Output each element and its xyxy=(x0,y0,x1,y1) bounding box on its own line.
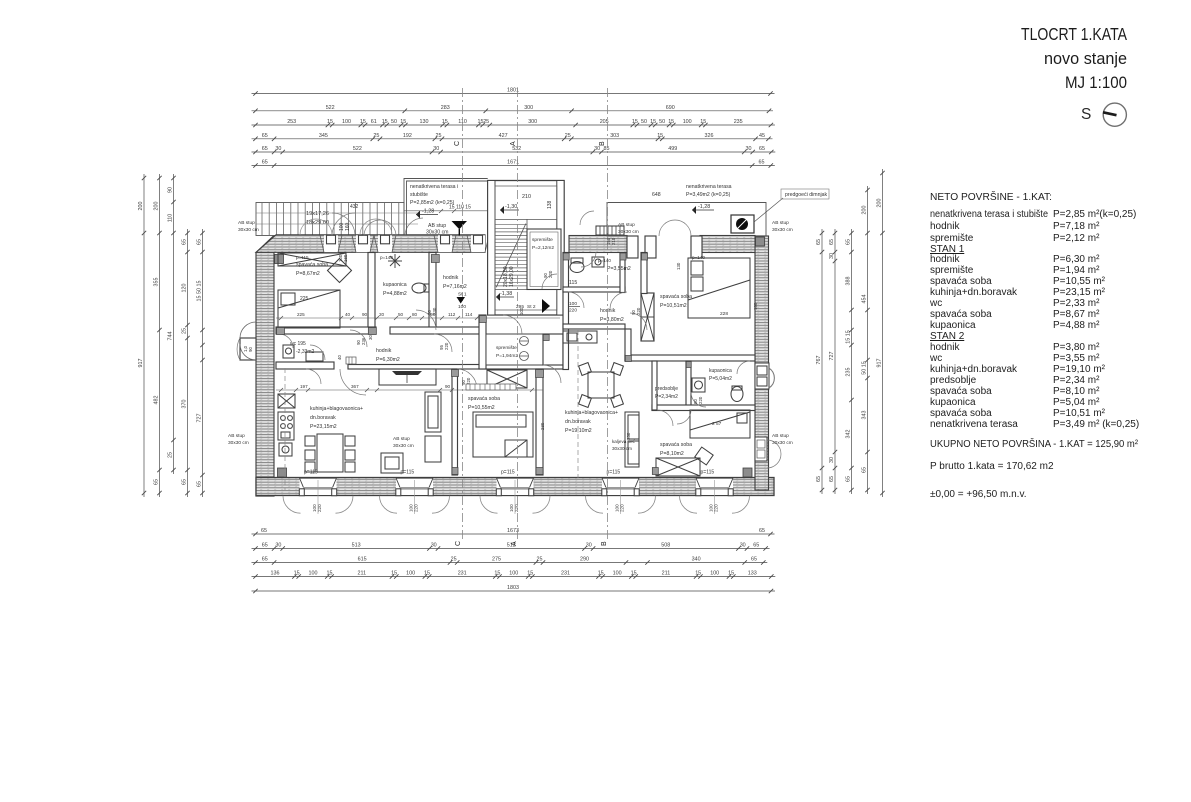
section line A xyxy=(517,88,519,540)
axis dashed vertical stan2 xyxy=(577,330,579,478)
pillar Q1 xyxy=(627,236,638,258)
svg-text:648: 648 xyxy=(652,192,661,198)
post stan2 bed wall xyxy=(642,253,648,260)
svg-text:A: A xyxy=(510,141,517,146)
svg-text:90: 90 xyxy=(248,347,253,352)
svg-text:P=5,04 m²: P=5,04 m² xyxy=(1053,397,1100,408)
svg-text:P=2,12m2: P=2,12m2 xyxy=(532,245,554,251)
svg-text:P=23,15m2: P=23,15m2 xyxy=(310,424,337,430)
AB stup label left-top xyxy=(238,220,259,233)
axis dashed vertical kitchen xyxy=(284,368,286,490)
svg-text:15: 15 xyxy=(424,571,430,577)
svg-text:340: 340 xyxy=(692,557,701,563)
slab post P4 xyxy=(434,235,456,252)
svg-text:65: 65 xyxy=(197,481,203,487)
svg-text:522: 522 xyxy=(353,146,362,152)
svg-text:225: 225 xyxy=(297,312,305,317)
svg-text:P=2,12 m²: P=2,12 m² xyxy=(1053,233,1100,244)
svg-text:wc: wc xyxy=(929,353,942,364)
section line B xyxy=(607,88,609,540)
svg-text:UKUPNO NETO POVRŠINA - 1.KAT =: UKUPNO NETO POVRŠINA - 1.KAT = 125,90 m² xyxy=(930,437,1139,450)
svg-text:P=6,30 m²: P=6,30 m² xyxy=(1053,254,1100,265)
svg-text:kuhinja+dn.boravak: kuhinja+dn.boravak xyxy=(930,287,1018,298)
wardrobe X stan2 bedroom2 xyxy=(656,458,700,476)
svg-text:343: 343 xyxy=(862,411,868,420)
svg-text:220: 220 xyxy=(514,504,519,512)
svg-text:25: 25 xyxy=(168,452,174,458)
stan2 dining table xyxy=(579,363,624,408)
svg-text:80: 80 xyxy=(412,312,418,317)
svg-text:100: 100 xyxy=(342,119,351,125)
shower star bath1 xyxy=(388,254,402,268)
svg-text:230: 230 xyxy=(432,307,437,315)
svg-text:65: 65 xyxy=(759,528,765,534)
svg-text:65: 65 xyxy=(262,133,268,139)
svg-text:220: 220 xyxy=(698,396,703,404)
svg-text:P=5,04m2: P=5,04m2 xyxy=(709,376,732,382)
svg-text:200: 200 xyxy=(138,202,144,211)
svg-text:P=3,55 m²: P=3,55 m² xyxy=(1053,353,1100,364)
svg-text:P=19,10m2: P=19,10m2 xyxy=(565,428,592,434)
dim bottom row5 xyxy=(252,585,776,593)
svg-text:AB stup: AB stup xyxy=(238,220,255,226)
stan2 shaft with X xyxy=(641,293,654,341)
svg-text:220: 220 xyxy=(548,270,553,278)
svg-text:kupaonica: kupaonica xyxy=(709,368,732,374)
svg-text:100: 100 xyxy=(509,571,518,577)
svg-text:kaljeva peć: kaljeva peć xyxy=(612,439,636,444)
svg-text:P=3,49m2 (k=0,25): P=3,49m2 (k=0,25) xyxy=(686,192,731,198)
dim top row2 xyxy=(252,105,774,113)
stan2 entry walls xyxy=(543,253,569,370)
svg-text:P=10,55m2: P=10,55m2 xyxy=(468,405,495,411)
svg-text:112: 112 xyxy=(448,312,456,317)
post predsoblje xyxy=(686,362,691,368)
dim top total 1801 xyxy=(252,88,775,96)
svg-text:225: 225 xyxy=(300,296,309,302)
top wall inner dim labels xyxy=(296,255,705,263)
svg-text:65: 65 xyxy=(753,543,759,549)
dim right col1 xyxy=(816,229,824,494)
svg-text:275: 275 xyxy=(492,557,501,563)
wc room stan1 xyxy=(290,341,315,355)
svg-text:367: 367 xyxy=(351,384,359,389)
svg-text:25: 25 xyxy=(537,557,543,563)
svg-text:AB stup: AB stup xyxy=(618,222,635,228)
svg-text:nenatkrivena terasa i: nenatkrivena terasa i xyxy=(410,184,458,190)
slab post P1 xyxy=(320,235,342,252)
svg-text:160: 160 xyxy=(343,254,348,262)
AB stup label mid-top xyxy=(618,222,639,235)
exterior wall bottom xyxy=(256,478,774,496)
kitchen counter left xyxy=(278,394,295,440)
internal dim chain kitchen xyxy=(276,384,543,390)
svg-text:136: 136 xyxy=(271,571,280,577)
bed stan2 first xyxy=(688,258,750,318)
svg-text:hodnik: hodnik xyxy=(930,254,960,265)
door mark St1 xyxy=(458,292,467,311)
svg-text:STAN 2: STAN 2 xyxy=(930,331,965,342)
svg-text:65: 65 xyxy=(262,557,268,563)
svg-text:303: 303 xyxy=(610,133,619,139)
svg-text:P=3,49 m² (k=0,25): P=3,49 m² (k=0,25) xyxy=(1053,419,1139,430)
stan2 sofa xyxy=(625,412,639,467)
svg-text:15: 15 xyxy=(494,571,500,577)
AB stup label right-top xyxy=(772,220,793,233)
svg-text:spavaća soba: spavaća soba xyxy=(468,396,500,402)
wardrobe X room1 xyxy=(278,253,346,266)
predgoreci dimnjak label xyxy=(754,189,829,222)
stair strip arcs xyxy=(300,219,392,235)
svg-text:novo stanje: novo stanje xyxy=(1044,49,1127,68)
bathroom kupaonica 4.88 xyxy=(383,282,407,297)
tv wall unit top xyxy=(379,369,436,385)
svg-text:231: 231 xyxy=(458,571,467,577)
wardrobe X bedroom2 xyxy=(487,370,527,388)
svg-text:65: 65 xyxy=(816,476,822,482)
AB stup label right-bottom xyxy=(772,433,793,446)
vent circles spremiste xyxy=(520,337,529,361)
svg-text:S: S xyxy=(1081,106,1091,123)
svg-text:P=2,34 m²: P=2,34 m² xyxy=(1053,375,1100,386)
svg-text:30: 30 xyxy=(368,335,373,340)
dim right col4 xyxy=(862,186,870,494)
dim left col4 xyxy=(182,229,190,497)
svg-text:690: 690 xyxy=(666,105,675,111)
interior wall bedroom/stan2 vertical xyxy=(536,369,543,475)
post bottom bed1 xyxy=(536,468,543,475)
svg-text:65: 65 xyxy=(829,239,835,245)
svg-text:235: 235 xyxy=(734,119,743,125)
svg-text:spavaća soba: spavaća soba xyxy=(930,309,992,320)
slab post P5 xyxy=(467,235,489,252)
svg-text:15: 15 xyxy=(391,571,397,577)
svg-text:kupaonica: kupaonica xyxy=(383,282,407,288)
svg-text:wc: wc xyxy=(929,298,942,309)
svg-text:65: 65 xyxy=(751,557,757,563)
svg-text:kuhinja+dn.boravak: kuhinja+dn.boravak xyxy=(930,364,1018,375)
bed stan1 second xyxy=(473,412,533,457)
svg-text:AB stup: AB stup xyxy=(393,436,410,442)
svg-text:100: 100 xyxy=(519,307,524,315)
kitchen label stan1 xyxy=(310,406,363,430)
dim left col1 xyxy=(138,174,146,497)
svg-text:40: 40 xyxy=(345,312,351,317)
svg-text:25: 25 xyxy=(436,133,442,139)
internal dim ticks row kitchen xyxy=(279,388,534,392)
hodnik 7.16 label xyxy=(443,275,467,290)
svg-text:65: 65 xyxy=(862,467,868,473)
svg-text:AB stup: AB stup xyxy=(428,223,446,229)
section letters top xyxy=(454,141,606,146)
window W2 bottom xyxy=(380,478,450,514)
svg-text:50: 50 xyxy=(391,119,397,125)
svg-text:110: 110 xyxy=(168,214,174,223)
pillar Q2 xyxy=(645,236,656,258)
dim right col3 xyxy=(846,229,854,494)
top wall band right segment xyxy=(569,236,755,253)
door marker St1 triangle xyxy=(457,297,466,304)
stan2 bedroom1 left wall xyxy=(641,253,647,294)
stan2 predsoblje label xyxy=(655,386,678,400)
svg-text:513: 513 xyxy=(352,543,361,549)
pillar Q3 xyxy=(691,236,702,258)
svg-text:231: 231 xyxy=(561,571,570,577)
post stan2 entry xyxy=(543,335,549,341)
right open terrace xyxy=(607,203,766,237)
svg-text:20: 20 xyxy=(379,312,385,317)
dim bottom row3 xyxy=(252,557,768,565)
hodnik 6.30 label xyxy=(376,348,400,363)
svg-text:210: 210 xyxy=(611,237,616,245)
svg-text:90: 90 xyxy=(445,384,451,389)
interior wall stan1 corridor right xyxy=(479,315,486,369)
svg-text:p=140: p=140 xyxy=(380,255,393,260)
tv sideboard stan1 xyxy=(425,392,441,462)
svg-text:230: 230 xyxy=(626,432,631,440)
svg-text:P=8,10 m²: P=8,10 m² xyxy=(1053,386,1100,397)
svg-text:90: 90 xyxy=(168,187,174,193)
svg-text:B: B xyxy=(601,541,608,546)
svg-text:432: 432 xyxy=(350,204,359,210)
svg-text:100: 100 xyxy=(569,301,577,307)
svg-text:A: A xyxy=(511,541,518,546)
svg-text:2 57: 2 57 xyxy=(712,421,722,427)
svg-text:C: C xyxy=(454,141,461,146)
svg-text:P=8,10m2: P=8,10m2 xyxy=(660,451,684,457)
svg-text:100: 100 xyxy=(683,119,692,125)
svg-text:P=10,51 m²: P=10,51 m² xyxy=(1053,408,1106,419)
svg-text:P=4,88m2: P=4,88m2 xyxy=(383,291,407,297)
svg-text:P=7,16m2: P=7,16m2 xyxy=(443,284,467,290)
stan2 wc wall xyxy=(563,253,625,293)
radiator symbol on top wall xyxy=(596,226,624,235)
svg-text:hodnik: hodnik xyxy=(376,348,392,354)
dim top row3 xyxy=(252,119,775,127)
exterior wall right xyxy=(755,236,769,490)
left wall door niche xyxy=(237,338,256,360)
staircase labels xyxy=(503,194,553,287)
svg-text:220: 220 xyxy=(636,307,641,315)
svg-text:197: 197 xyxy=(300,384,308,389)
internal dim ticks row upper xyxy=(279,316,479,320)
svg-text:P=3,80m2: P=3,80m2 xyxy=(600,317,624,323)
stan2 kitchen label xyxy=(565,410,618,434)
svg-text:kuhinja+blagovaonica+: kuhinja+blagovaonica+ xyxy=(565,410,618,416)
area table xyxy=(929,190,1139,500)
svg-text:615: 615 xyxy=(358,557,367,563)
svg-text:283: 283 xyxy=(441,105,450,111)
svg-text:228: 228 xyxy=(720,311,728,317)
post bedroom/stan2 wall xyxy=(536,370,544,378)
north symbol S xyxy=(1081,103,1126,126)
svg-text:65: 65 xyxy=(759,160,765,166)
svg-text:290: 290 xyxy=(580,557,589,563)
level marker -1.28 center terrace xyxy=(416,209,438,219)
svg-text:253: 253 xyxy=(287,119,296,125)
svg-text:200: 200 xyxy=(154,202,160,211)
svg-text:hodnik: hodnik xyxy=(443,275,459,281)
svg-text:AB stup: AB stup xyxy=(228,433,245,439)
svg-text:p=140: p=140 xyxy=(598,258,611,263)
svg-text:15: 15 xyxy=(598,571,604,577)
svg-text:30: 30 xyxy=(829,253,835,259)
svg-text:65: 65 xyxy=(182,239,188,245)
svg-text:40: 40 xyxy=(337,355,342,360)
svg-text:499: 499 xyxy=(668,146,677,152)
svg-text:kupaonica: kupaonica xyxy=(930,397,976,408)
exterior stair strip top-left xyxy=(256,203,404,236)
svg-text:15: 15 xyxy=(728,571,734,577)
svg-text:180: 180 xyxy=(753,302,758,310)
level marker -1.38 xyxy=(496,291,514,301)
svg-text:300: 300 xyxy=(524,105,533,111)
svg-text:236: 236 xyxy=(361,337,366,345)
svg-text:342: 342 xyxy=(846,430,852,439)
section line C xyxy=(462,88,464,540)
svg-text:P=3,55m2: P=3,55m2 xyxy=(607,266,631,272)
svg-text:220: 220 xyxy=(620,504,625,512)
svg-text:917: 917 xyxy=(138,359,144,368)
svg-text:220: 220 xyxy=(414,504,419,512)
svg-text:25: 25 xyxy=(182,328,188,334)
svg-text:kupaonica: kupaonica xyxy=(930,320,976,331)
stan2 corridor bottom wall xyxy=(563,324,755,361)
svg-text:spavaća soba: spavaća soba xyxy=(296,262,328,268)
svg-text:P brutto 1.kata = 170,62 m2: P brutto 1.kata = 170,62 m2 xyxy=(930,461,1054,472)
corner post right-top xyxy=(756,237,765,246)
svg-text:130: 130 xyxy=(420,119,429,125)
svg-text:15: 15 xyxy=(631,571,637,577)
svg-text:30x30 cm: 30x30 cm xyxy=(228,440,249,446)
svg-text:nenatkrivena terasa: nenatkrivena terasa xyxy=(686,184,732,190)
svg-text:15: 15 xyxy=(527,571,533,577)
svg-text:P=10,51m2: P=10,51m2 xyxy=(660,303,687,309)
svg-text:65: 65 xyxy=(816,239,822,245)
svg-text:727: 727 xyxy=(829,352,835,361)
svg-text:120: 120 xyxy=(182,284,188,293)
svg-text:90: 90 xyxy=(362,312,368,317)
svg-text:211: 211 xyxy=(358,571,367,577)
svg-text:St 2: St 2 xyxy=(527,304,536,310)
svg-text:spavaća soba: spavaća soba xyxy=(660,442,692,448)
stan2 bedroom1 label xyxy=(660,294,692,309)
svg-text:-1,38: -1,38 xyxy=(500,291,512,297)
svg-text:200: 200 xyxy=(862,206,868,215)
svg-text:50: 50 xyxy=(641,119,647,125)
internal dim chain mid xyxy=(276,312,560,318)
svg-text:25: 25 xyxy=(451,557,457,563)
svg-text:25: 25 xyxy=(483,119,489,125)
svg-text:spavaća soba: spavaća soba xyxy=(930,386,992,397)
svg-text:114: 114 xyxy=(465,312,473,317)
svg-text:454: 454 xyxy=(862,295,868,304)
svg-text:B: B xyxy=(599,141,606,146)
svg-text:508: 508 xyxy=(661,543,670,549)
svg-text:P=10,55 m²: P=10,55 m² xyxy=(1053,276,1106,287)
svg-text:15: 15 xyxy=(400,119,406,125)
stair strip guide lines xyxy=(256,213,418,224)
stair labels xyxy=(306,204,359,231)
AB stup marker center with black triangle xyxy=(426,221,467,236)
svg-text:NETO POVRŠINE - 1.KAT:: NETO POVRŠINE - 1.KAT: xyxy=(930,190,1052,203)
terrace door swing arcs xyxy=(332,213,423,236)
svg-text:19x17,26: 19x17,26 xyxy=(306,211,329,217)
corner post bottom-left xyxy=(278,468,287,477)
dim right col2 xyxy=(829,229,837,494)
svg-text:C: C xyxy=(455,541,462,546)
bed room1 xyxy=(278,290,340,328)
svg-text:spremište: spremište xyxy=(496,345,517,351)
dim top row6 xyxy=(252,160,775,168)
svg-text:p=115: p=115 xyxy=(607,470,621,476)
svg-text:15: 15 xyxy=(382,119,388,125)
chimney xyxy=(731,215,754,233)
svg-text:15: 15 xyxy=(360,119,366,125)
svg-text:15: 15 xyxy=(650,119,656,125)
svg-text:15: 15 xyxy=(327,119,333,125)
svg-text:p=115: p=115 xyxy=(701,470,715,476)
post hodnik/bath xyxy=(431,255,439,263)
svg-text:220: 220 xyxy=(444,342,449,350)
svg-text:50: 50 xyxy=(398,312,404,317)
svg-text:P=8,67m2: P=8,67m2 xyxy=(296,271,320,277)
svg-text:spremište: spremište xyxy=(930,233,974,244)
svg-text:nenatkrivena terasa i stubište: nenatkrivena terasa i stubište xyxy=(930,209,1048,220)
svg-text:192: 192 xyxy=(403,133,412,139)
svg-text:30: 30 xyxy=(740,543,746,549)
svg-text:p=115: p=115 xyxy=(501,470,515,476)
svg-text:482: 482 xyxy=(154,396,160,405)
dim bottom row2 xyxy=(252,543,770,551)
svg-text:P=2,34m2: P=2,34m2 xyxy=(655,394,678,400)
svg-text:30x30 cm: 30x30 cm xyxy=(393,443,414,449)
svg-text:30: 30 xyxy=(431,543,437,549)
svg-text:345: 345 xyxy=(319,133,328,139)
svg-text:30x30 cm: 30x30 cm xyxy=(612,446,632,451)
post corridor left xyxy=(277,328,285,335)
svg-text:AB stup: AB stup xyxy=(772,433,789,439)
svg-text:1803: 1803 xyxy=(507,585,519,591)
right wall lower window bump xyxy=(755,437,781,468)
svg-text:30x30 cm: 30x30 cm xyxy=(618,229,639,235)
svg-text:15: 15 xyxy=(668,119,674,125)
svg-text:-1,28: -1,28 xyxy=(698,204,710,210)
svg-text:18x29,00: 18x29,00 xyxy=(306,220,329,226)
svg-text:235: 235 xyxy=(846,368,852,377)
svg-text:744: 744 xyxy=(168,332,174,341)
AB stup label mid-kitchen xyxy=(393,436,414,449)
diamond table room1 xyxy=(327,258,351,282)
svg-text:15: 15 xyxy=(700,119,706,125)
svg-text:50 15: 50 15 xyxy=(862,361,868,375)
svg-text:P=3,80 m²: P=3,80 m² xyxy=(1053,342,1100,353)
door arcs interior xyxy=(279,292,706,426)
svg-text:65: 65 xyxy=(846,476,852,482)
svg-text:P=2,85m2 (k=0,25): P=2,85m2 (k=0,25) xyxy=(410,200,455,206)
svg-text:±0,00 = +96,50 m.n.v.: ±0,00 = +96,50 m.n.v. xyxy=(930,489,1026,500)
rotated chair stan2 xyxy=(695,447,713,465)
svg-text:220: 220 xyxy=(714,504,719,512)
svg-text:P=19,10 m²: P=19,10 m² xyxy=(1053,364,1106,375)
svg-text:kuhinja+blagovaonica+: kuhinja+blagovaonica+ xyxy=(310,406,363,412)
title block xyxy=(1021,24,1127,92)
svg-text:727: 727 xyxy=(197,414,203,423)
slab post P3 xyxy=(374,235,396,252)
dim bottom row1 xyxy=(252,528,775,536)
svg-text:30: 30 xyxy=(746,146,752,152)
svg-text:355: 355 xyxy=(154,278,160,287)
